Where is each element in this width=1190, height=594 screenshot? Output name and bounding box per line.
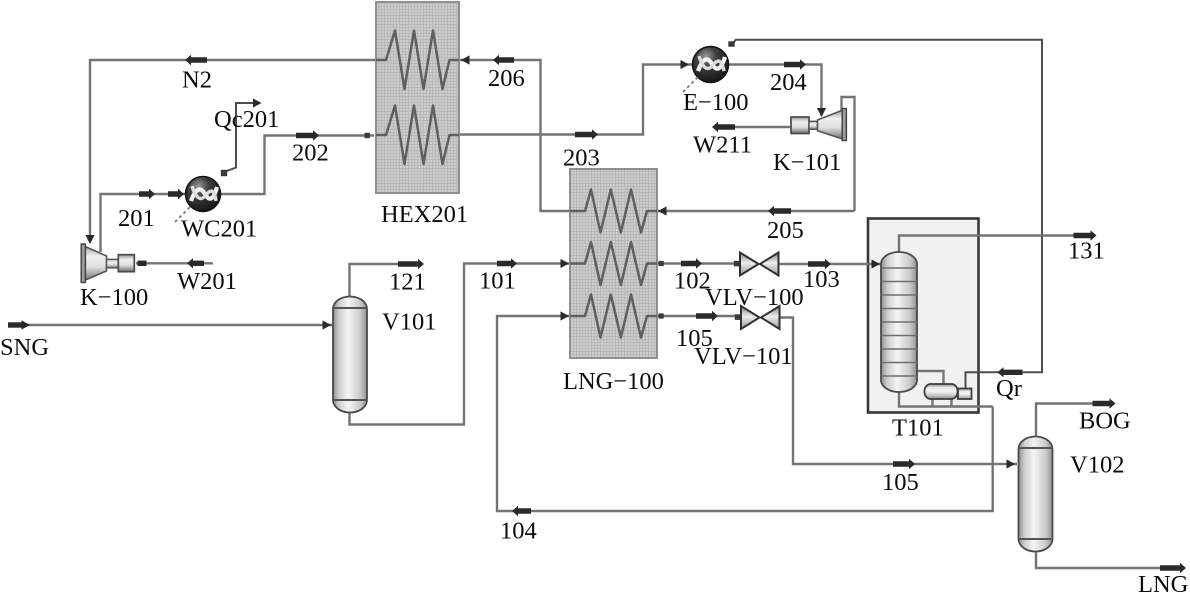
svg-text:103: 103 xyxy=(803,266,840,293)
HEX201 top coil xyxy=(376,31,459,90)
wire Qc201 energy (from WC201 top-right up and right) xyxy=(224,103,254,172)
wire 201 (K-100 outlet up then right to WC201) xyxy=(101,194,187,252)
svg-text:K−101: K−101 xyxy=(773,149,841,176)
vessel V101 xyxy=(333,297,367,413)
wire 105 (LNG-100 bottom coil out to VLV-101) xyxy=(657,315,741,317)
column tower T101 vessel xyxy=(881,252,917,392)
wire 202 (WC201 out, right, up, right into HEX201 bottom coil) xyxy=(220,136,374,195)
svg-text:V102: V102 xyxy=(1070,452,1124,479)
arrow dash on SNG wire xyxy=(8,322,23,327)
svg-text:204: 204 xyxy=(770,69,807,96)
arrow on 105 wire to V102 xyxy=(893,459,915,469)
wire V101 bottoms to 101 (down, right, up, right into LNG-100 middle coil) xyxy=(350,264,571,425)
arrow on Qr wire xyxy=(998,367,1023,377)
arrow on W211 wire xyxy=(712,122,735,132)
expander K-101 xyxy=(791,109,846,141)
svg-text:203: 203 xyxy=(563,145,600,172)
arrow on 131 wire xyxy=(1074,230,1097,240)
arrow on 102 wire xyxy=(681,258,702,268)
arrow on 201 wire xyxy=(139,189,155,199)
wire E-100 duty to Qr (up, right, down, left into reboiler) xyxy=(733,40,1042,388)
arrow 103 into T101 column xyxy=(872,259,881,268)
wire 203 (HEX201 bottom coil out right, up, right into E-100) xyxy=(459,65,692,135)
wire K-101 outlet loop (up, right, long down to 205) xyxy=(842,97,855,211)
svg-text:131: 131 xyxy=(1068,238,1105,265)
arrow on 201 wire second xyxy=(168,189,184,199)
LNG exchanger LNG-100 body xyxy=(570,169,657,358)
arrow on 104 wire xyxy=(512,506,531,516)
arrow 206 out of HEX201 xyxy=(461,55,470,64)
svg-text:201: 201 xyxy=(118,205,155,232)
svg-text:Qr: Qr xyxy=(996,375,1022,402)
arrow 104 into LNG-100 xyxy=(561,311,570,320)
arrow on 206 wire xyxy=(493,55,514,65)
reboiler drum of T101 xyxy=(925,384,972,399)
arrow 101 into LNG-100 xyxy=(561,259,570,268)
arrow SNG into V101 xyxy=(323,320,332,329)
arrow on N2 wire xyxy=(185,55,207,65)
arrow on 202 wire xyxy=(296,130,319,140)
HEX201 bottom coil xyxy=(376,106,459,165)
wire column bottoms to reboiler xyxy=(899,390,993,407)
svg-text:LNG−100: LNG−100 xyxy=(563,368,664,395)
arrow on 103 wire xyxy=(808,259,831,269)
node 105 out of LNG-100 xyxy=(659,313,664,318)
arrow 203 into E-100 xyxy=(681,60,690,69)
svg-text:N2: N2 xyxy=(182,67,212,94)
svg-text:SNG: SNG xyxy=(0,334,49,361)
node into VLV-101 xyxy=(735,314,741,320)
arrow on 205 wire xyxy=(768,206,791,216)
wire W211 energy (out of K-101 shaft to the left) xyxy=(714,126,791,128)
arrow 205 into LNG-100 xyxy=(658,206,667,215)
svg-text:Qc201: Qc201 xyxy=(214,106,279,133)
svg-text:VLV−100: VLV−100 xyxy=(705,284,804,311)
valve VLV-100 xyxy=(740,253,779,276)
node 102 out of LNG-100 xyxy=(659,261,664,266)
cooler WC201 xyxy=(175,177,221,223)
node Qc201 at WC201 xyxy=(221,170,227,176)
arrow on 101 wire xyxy=(497,258,517,268)
node E-100 duty connection xyxy=(728,41,734,46)
compressor K-100 xyxy=(81,244,134,283)
arrow on LNG wire xyxy=(1160,563,1186,573)
valve VLV-101 xyxy=(741,306,780,329)
arrow dash on W201 at shaft xyxy=(138,261,147,266)
svg-text:HEX201: HEX201 xyxy=(381,201,468,228)
cooler E-100 xyxy=(683,47,729,93)
svg-text:206: 206 xyxy=(488,65,525,92)
arrow 105 into V102 xyxy=(1007,459,1016,468)
node into VLV-100 xyxy=(734,261,740,267)
wire VLV-101 out (right, down, right into V102) xyxy=(780,318,1018,465)
wire 206 (LNG-100 top coil out, left, up, left into HEX201 top coil) xyxy=(459,60,570,211)
svg-text:LNG: LNG xyxy=(1138,571,1188,594)
LNG-100 bottom coil xyxy=(570,295,657,338)
wire reboiler vapour return to column xyxy=(917,371,944,384)
wire reboiler outlet stub xyxy=(950,399,952,407)
svg-text:WC201: WC201 xyxy=(181,216,257,243)
svg-text:105: 105 xyxy=(882,469,919,496)
arrow on W201 wire xyxy=(187,258,204,268)
svg-text:BOG: BOG xyxy=(1079,408,1131,435)
svg-text:E−100: E−100 xyxy=(683,89,749,116)
svg-text:202: 202 xyxy=(292,140,329,167)
arrow on 121 wire xyxy=(398,259,424,269)
LNG-100 top coil xyxy=(570,190,657,233)
arrow on BOG wire xyxy=(1093,398,1116,408)
heat exchanger HEX201 body xyxy=(376,2,459,193)
vessel V102 xyxy=(1019,436,1053,551)
svg-text:205: 205 xyxy=(767,217,804,244)
wire reboiler liquid stub xyxy=(931,399,933,407)
LNG-100 middle coil xyxy=(570,242,657,285)
arrow tip on SNG wire xyxy=(22,320,31,329)
wire W201 energy (into K-100 shaft) xyxy=(136,262,213,264)
column sub-flowsheet T101 enclosure xyxy=(868,219,979,413)
wire 205 (right to left into LNG-100 top coil) xyxy=(657,210,855,212)
svg-text:W211: W211 xyxy=(693,132,752,159)
wire 121 (V101 top out, up then right) xyxy=(350,264,424,297)
wire BOG (V102 top out, up then right) xyxy=(1036,404,1110,438)
arrow Qc201 tip xyxy=(253,98,262,107)
arrow K-100 inlet xyxy=(85,235,94,244)
svg-text:101: 101 xyxy=(479,268,516,295)
svg-text:V101: V101 xyxy=(382,309,436,336)
arrow K-101 inlet xyxy=(817,108,826,117)
svg-text:K−100: K−100 xyxy=(80,284,148,311)
arrow on 204 wire xyxy=(784,59,806,69)
svg-text:VLV−101: VLV−101 xyxy=(694,343,793,370)
svg-text:104: 104 xyxy=(500,518,537,545)
svg-text:W201: W201 xyxy=(177,268,237,295)
svg-text:121: 121 xyxy=(389,269,426,296)
wire N2 (HEX201 top coil out, left then down to K-100 inlet) xyxy=(90,60,376,242)
node 202 into HEX201 xyxy=(365,133,370,138)
wire 204 (E-100 out right then down into K-101) xyxy=(729,65,822,117)
svg-text:T101: T101 xyxy=(892,415,944,442)
wire 131 (column overhead out of T101 to the right) xyxy=(899,236,1091,254)
arrow on 105 wire xyxy=(696,311,718,321)
wire 102 (LNG-100 middle coil out to VLV-100) xyxy=(657,262,740,264)
wire SNG feed into V101 xyxy=(8,324,333,326)
arrow on 203 wire xyxy=(575,129,598,139)
wire LNG product (V102 bottom out, down then right) xyxy=(1036,551,1181,568)
wire 103 (VLV-100 out to T101 column feed) xyxy=(779,263,882,265)
wire T101 bottoms to 104 (down, left, up, right into LNG-100 bottom coil) xyxy=(497,316,993,511)
